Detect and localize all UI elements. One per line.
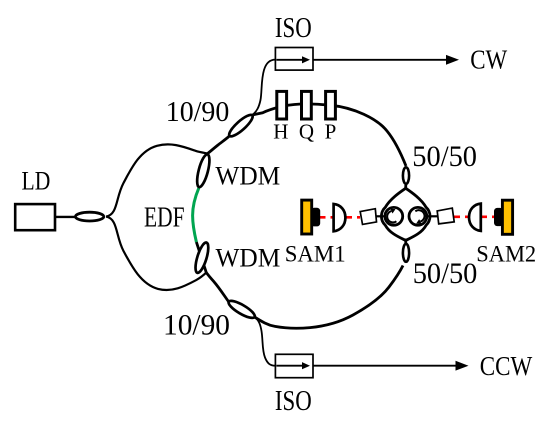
wire LD to splitter [55,216,76,218]
wire ring bottom arc (WDM bottom via 10/90 to bottom 50/50) [206,266,403,329]
SAM1 absorber stub [311,208,320,227]
svg-text:ISO: ISO [275,386,312,417]
CW output arrow [314,59,448,61]
waveplate P [326,91,336,119]
collimator circle left [385,207,403,225]
CCW output arrow [314,365,457,367]
wire loop mirror to 50/50 bottom [404,239,407,244]
svg-text:SAM1: SAM1 [285,241,346,266]
beam red dashed lens to SAM2 [481,216,496,219]
tap fiber to bottom ISO [255,317,276,366]
rotation arrow right (head at bottom pointing SW) [415,210,424,221]
coupler 50/50 top ellipse [403,167,409,184]
beam red dashed lens to square left [346,216,361,219]
WDM bottom ellipse [193,241,211,274]
splitter ellipse [75,212,103,221]
svg-text:CW: CW [470,44,507,75]
coupler 50/50 bottom ellipse [403,244,409,262]
stub collimator right to square [427,215,438,217]
SAM1 body (orange with black frame) [302,200,312,234]
pump fiber bottom (splitter to WDM bottom) [106,217,206,290]
EDF green fiber [193,188,199,242]
lens right (plano-convex, flat right) [469,204,481,231]
rotation arrow left (clockwise via left side, head at top) [387,211,396,222]
beam red dashed square to lens right [454,216,470,219]
polarizer square left (tilted) [360,209,376,225]
wire ring left segment through WDM top [199,154,208,188]
SAM2 body [502,200,512,234]
SAM2 absorber stub [494,208,503,226]
svg-text:50/50: 50/50 [413,257,478,290]
svg-text:CCW: CCW [480,350,533,381]
svg-text:P: P [325,119,337,143]
wire ring left segment through WDM bottom [196,242,206,273]
svg-text:SAM2: SAM2 [476,241,536,266]
wire ring top arc (from top 50/50 to top WDM via 10/90) [208,104,406,166]
polarizer square right (tilted) [437,208,454,224]
loop left arc around collimators [381,188,405,240]
pump fiber top (splitter to WDM top) [106,144,208,216]
isolator ISO bottom box [275,354,313,377]
coupler 10/90 bottom ellipse [227,298,257,321]
svg-text:ISO: ISO [275,13,312,44]
coupler 10/90 top ellipse [227,112,256,139]
svg-text:LD: LD [22,167,51,196]
svg-text:H: H [273,119,288,143]
svg-text:10/90: 10/90 [166,96,230,128]
tap fiber to top ISO [253,60,276,115]
isolator ISO top box [275,48,313,71]
laser diode LD box [15,204,55,230]
arrow inside bottom ISO [276,365,302,367]
waveplate Q [302,91,312,119]
svg-text:WDM: WDM [215,162,280,191]
wire 50/50 top to loop mirror [404,185,407,190]
svg-text:EDF: EDF [144,203,185,234]
loop right arc around collimators [406,188,430,240]
svg-text:50/50: 50/50 [412,140,477,173]
svg-text:10/90: 10/90 [163,309,230,342]
stub collimator left to square [376,215,386,217]
svg-text:Q: Q [299,119,314,143]
waveplate H [277,91,287,119]
beam red dashed SAM1 to lens [319,216,334,219]
lens left (plano-convex, flat left) [334,204,346,231]
svg-text:WDM: WDM [216,244,281,273]
WDM top ellipse [195,153,212,188]
arrow inside top ISO [276,59,302,61]
collimator circle right [409,207,427,225]
